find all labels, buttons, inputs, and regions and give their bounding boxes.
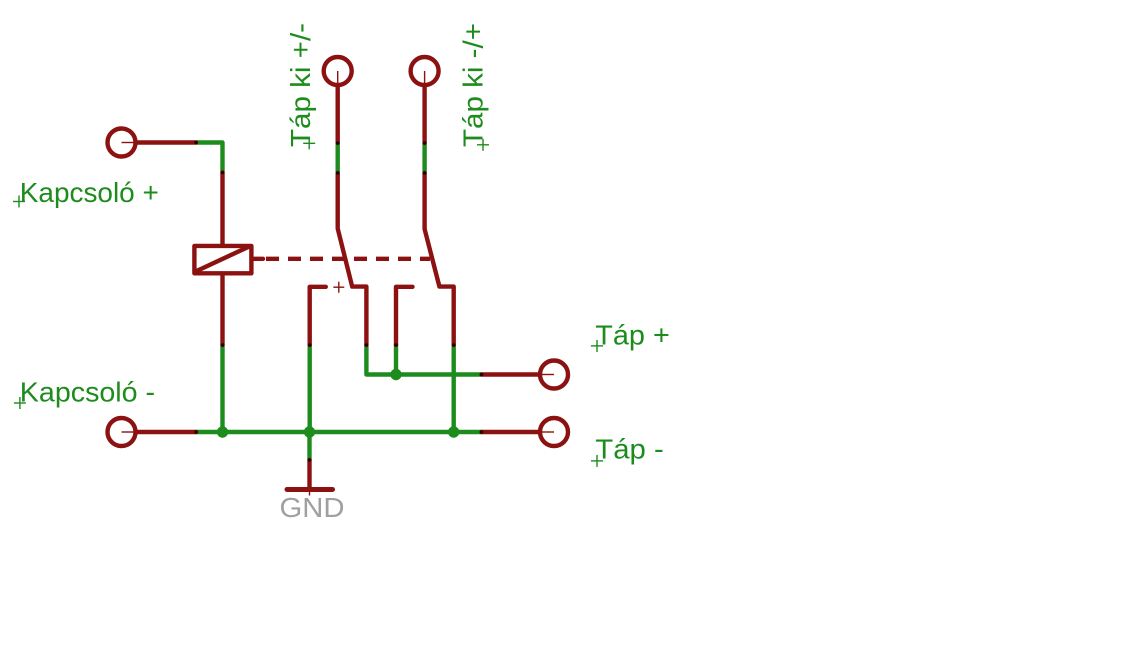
- pin junction dots (dark specks at net/pin transitions): [194, 141, 483, 462]
- pad J5 Tap+: [482, 361, 569, 389]
- dashed actuation line: [266, 257, 430, 261]
- wire net Kapcsolo+ to relay coil: [196, 143, 223, 173]
- label origin cross Tap-: [591, 455, 603, 467]
- label origin cross Tap+: [591, 340, 603, 352]
- label Tap ki +/- (rotated): [285, 23, 316, 147]
- wire net switch1 output to Tap+: [366, 345, 481, 375]
- pad J3 Tap ki +/-: [324, 57, 352, 143]
- junction dot switch2out/bus: [448, 426, 459, 437]
- relay contact S2: [396, 173, 454, 345]
- wire net bottom bus (Kapcsolo- / Tap- / GND): [196, 430, 482, 434]
- svg-text:Táp -: Táp -: [595, 434, 664, 465]
- svg-text:Táp +: Táp +: [595, 320, 670, 351]
- svg-text:Táp ki +/-: Táp ki +/-: [285, 23, 316, 147]
- label Kapcsolo +: [20, 177, 159, 208]
- label origin cross Kapcsolo+: [13, 196, 25, 208]
- svg-text:Táp ki -/+: Táp ki -/+: [458, 23, 489, 147]
- ground symbol GND: [287, 460, 333, 496]
- wire net Tap ki -/+ pad to switch2: [422, 143, 426, 173]
- label origin cross Tap ki -/+: [477, 139, 489, 151]
- svg-text:GND: GND: [280, 492, 345, 523]
- wire net GND stub: [307, 432, 311, 460]
- wire net Tap ki +/- pad to switch1: [336, 143, 340, 173]
- label GND: [280, 492, 345, 523]
- pad J2 Kapcsolo-: [108, 418, 197, 446]
- wire net switch2 output to bus: [452, 345, 456, 432]
- pad J4 Tap ki -/+: [411, 57, 439, 143]
- relay contact S1: [310, 173, 367, 345]
- label Tap +: [595, 320, 670, 351]
- svg-text:Kapcsoló +: Kapcsoló +: [20, 177, 159, 208]
- label origin cross Tap ki +/-: [303, 137, 315, 149]
- polarity mark + on contact S1: [333, 282, 344, 293]
- wire net switch2 common to Tap+ junction: [394, 345, 398, 375]
- junction dot coil/bus: [217, 426, 228, 437]
- pad J6 Tap-: [482, 418, 569, 446]
- wire net coil bottom to bus: [220, 345, 224, 432]
- svg-text:Kapcsoló -: Kapcsoló -: [20, 377, 155, 408]
- wire net switch1 common to bus: [308, 345, 312, 432]
- pad J1 Kapcsolo+: [108, 129, 197, 157]
- label origin cross Kapcsolo-: [14, 397, 26, 409]
- junction dot gnd/bus: [304, 426, 315, 437]
- relay coil K1: [194, 173, 263, 346]
- junction dot tap+: [390, 369, 401, 380]
- label Tap ki -/+ (rotated): [458, 23, 489, 147]
- label Tap -: [595, 434, 664, 465]
- label Kapcsolo -: [20, 377, 155, 408]
